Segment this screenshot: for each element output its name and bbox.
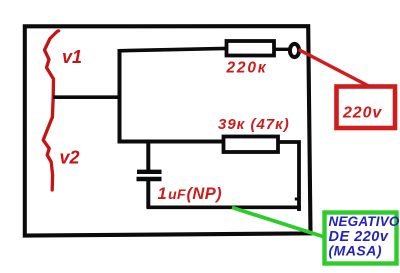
svg-text:39к (47к): 39к (47к) — [218, 116, 290, 133]
winding v2 — [43, 117, 52, 190]
svg-text:220v: 220v — [342, 104, 382, 121]
wire tap to winding — [53, 95, 121, 99]
capacitor C1 top plate — [137, 170, 162, 174]
winding v1 — [45, 31, 59, 117]
svg-text:220к: 220к — [226, 60, 268, 77]
outer box — [25, 26, 311, 235]
svg-text:v2: v2 — [60, 148, 80, 168]
capacitor C1 bottom lead — [146, 181, 150, 209]
resistor R1 220k — [227, 41, 275, 56]
svg-text:NEGATIVO: NEGATIVO — [329, 214, 400, 229]
svg-text:1uF(NP): 1uF(NP) — [158, 185, 223, 203]
svg-text:(MASA): (MASA) — [329, 242, 383, 258]
red lead terminal to 220v box — [299, 50, 372, 88]
green lead to negative box — [232, 208, 326, 238]
wire middle horizontal — [118, 140, 225, 144]
stub on right rail — [295, 198, 299, 201]
capacitor C1 top lead — [146, 142, 150, 170]
box 220v — [337, 87, 396, 129]
wire resistor R1 to terminal — [274, 48, 290, 51]
box negativo de 220v (masa) — [325, 213, 397, 264]
resistor R2 39k — [224, 137, 279, 153]
wire R2 to right rail — [278, 142, 299, 211]
wire top — [118, 48, 226, 50]
output terminal — [290, 44, 299, 57]
capacitor C1 bottom plate — [137, 177, 162, 181]
svg-text:v1: v1 — [62, 47, 82, 67]
wire left vertical — [118, 49, 122, 143]
wire bottom — [147, 206, 301, 210]
